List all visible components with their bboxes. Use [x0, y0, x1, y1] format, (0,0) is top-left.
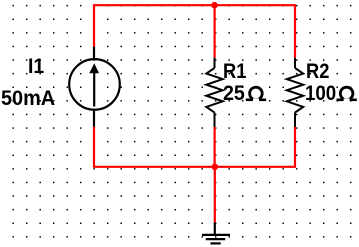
wire R1 bottom drop: [214, 127, 216, 167]
wire ground stem: [214, 167, 216, 223]
ground: [202, 223, 230, 244]
label 50mA: [1, 88, 55, 110]
label omega of 25ohm: [246, 87, 266, 101]
wire middle top drop to R1: [214, 5, 216, 58]
wire bottom loop: left drop, bottom rail, right rise: [94, 127, 295, 167]
label I1: [28, 56, 44, 78]
node bottom junction: [212, 164, 219, 171]
label 25 of 25ohm: [223, 83, 245, 105]
resistor R2: [287, 58, 303, 127]
label 100 of 100ohm: [305, 83, 336, 105]
wire top loop: left riser, top rail, right riser: [94, 5, 295, 58]
label R2: [306, 61, 329, 83]
label R1: [223, 61, 246, 83]
resistor R1: [206, 58, 222, 127]
label omega of 100ohm: [337, 87, 357, 101]
current source I1: [69, 47, 120, 127]
node top junction: [211, 2, 218, 9]
